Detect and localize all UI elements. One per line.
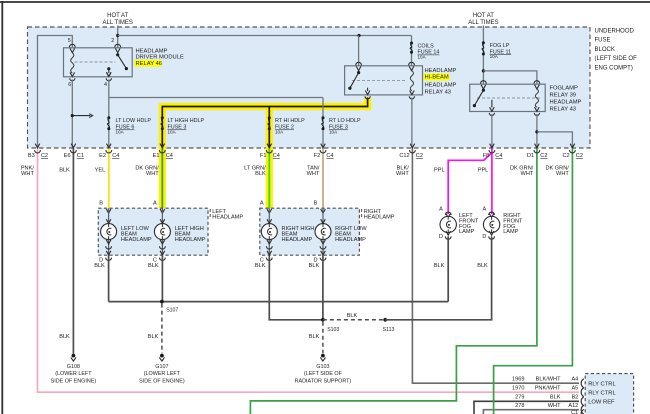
svg-text:C2: C2 [562, 153, 569, 159]
ground G108 [51, 354, 97, 385]
svg-text:LOW REF: LOW REF [588, 399, 615, 405]
right headlamp assembly (dashed box) [260, 208, 360, 255]
svg-text:HEADLAMP: HEADLAMP [175, 237, 206, 243]
wire color label at x=108.8 [95, 167, 106, 173]
relay 43 coil-bottom connector (arrow+arc) [409, 91, 414, 99]
svg-text:5: 5 [68, 38, 71, 44]
svg-text:HEADLAMP: HEADLAMP [335, 237, 366, 243]
wire relay 46 pin 4 feed to fuses (lo-beam bus) [109, 79, 323, 147]
svg-text:C4: C4 [326, 153, 333, 159]
fog relay coil-bottom connector (arrow+arc) [534, 107, 539, 115]
connector pin E6 C1 at fuse block edge [64, 144, 84, 160]
svg-text:BLK: BLK [148, 263, 159, 269]
wire BLK E6 to ground G108 [72, 148, 74, 354]
svg-text:ENG COMPT): ENG COMPT) [595, 66, 633, 72]
headlamp bulb at x=269.3 pin A/C [260, 201, 272, 224]
wire BLK dashed splice link S103-S113 [323, 319, 385, 321]
wire coils fuse 14 feed [411, 36, 413, 66]
connector pin F8 C4 at fuse block edge [483, 144, 503, 160]
headlamp bulb at x=323.0 pin B/D [314, 201, 326, 224]
svg-text:RLY CTRL: RLY CTRL [588, 390, 616, 396]
fog relay switch [473, 89, 492, 108]
headlamp bulb at x=162.4 pin A/C [153, 201, 165, 224]
wire hi-beam highlighted trunk from relay 43 output [162, 97, 367, 208]
svg-text:S113: S113 [383, 327, 395, 333]
svg-text:10A: 10A [329, 130, 338, 135]
wire fog feed to relay coil top [483, 71, 537, 84]
relay 46 pin 2 connector (arc+arrow) [115, 44, 121, 52]
svg-text:278: 278 [515, 403, 524, 409]
wire color label at x=412.4 [396, 165, 409, 177]
relay 46 internal dashed link [75, 61, 116, 63]
svg-text:D: D [439, 234, 443, 240]
BCM row C1 (clipped) [571, 409, 584, 414]
fog relay coil [535, 89, 538, 107]
relay 43 switch [348, 71, 367, 91]
wire PNK/WHT B3 to BCM RLY CTRL (row 1970) [38, 148, 580, 392]
wire PPL F8 to right front fog lamp [491, 148, 493, 214]
wire BLK ground bus S107 (left) [109, 301, 449, 303]
svg-text:PPL: PPL [434, 167, 445, 173]
connector pin F1 C4 at fuse block edge [260, 144, 280, 160]
svg-text:C4: C4 [273, 153, 280, 159]
relay 43 switch-feed connector (arc+arrow) [356, 62, 362, 70]
svg-text:FUSE: FUSE [595, 38, 611, 44]
wire BLK/WHT C12 to BCM RLY CTRL (row 1969) [412, 148, 579, 383]
svg-text:10A: 10A [275, 130, 284, 135]
svg-text:(LEFT SIDE OF: (LEFT SIDE OF [595, 56, 638, 62]
connector pin E2 C4 at fuse block edge [99, 144, 119, 160]
svg-text:HOT AT: HOT AT [473, 13, 494, 19]
svg-text:BLK: BLK [59, 334, 70, 340]
ground G107 [139, 354, 185, 385]
relay 46 coil [71, 53, 74, 74]
svg-text:10A: 10A [168, 130, 177, 135]
fuse COILS FUSE 14 10A [410, 42, 439, 60]
wire hot feed right vertical [482, 26, 484, 85]
svg-text:RT LO HDLP: RT LO HDLP [329, 118, 361, 124]
svg-text:RADIATOR SUPPORT): RADIATOR SUPPORT) [295, 378, 352, 384]
svg-text:RELAY 43: RELAY 43 [550, 107, 577, 113]
wire color label at x=269.3 [244, 165, 266, 177]
fog relay switched-output connector (arrow+arc) [489, 107, 494, 115]
fog lamp bulb at x=491.6 [483, 207, 495, 218]
wire DK GRN/WHT E1 (highlighted) to left high beam headlamp [161, 148, 163, 208]
BCM row 279 BLK B2 [515, 395, 584, 406]
svg-text:10A: 10A [490, 54, 499, 59]
svg-text:WHT: WHT [396, 171, 409, 177]
svg-text:A: A [439, 207, 443, 213]
svg-text:HI-BEAM: HI-BEAM [425, 75, 449, 81]
BCM connector dashed box [585, 374, 633, 414]
relay U-Foglamp Relay 39 / Headlamp Relay 43 box [470, 84, 546, 111]
relay U-Headlamp Hi-Beam Relay 43 box [345, 66, 423, 95]
wire bus hot-left to coils fuse 14 [118, 35, 412, 37]
svg-text:DRIVER MODULE: DRIVER MODULE [136, 55, 184, 61]
BCM row 278 WHT A12 [515, 403, 584, 414]
svg-text:D1: D1 [527, 153, 534, 159]
wire color label at x=323 [307, 165, 320, 177]
svg-text:A: A [260, 201, 264, 207]
wire color label at x=572.4 [545, 165, 569, 177]
svg-text:WHT: WHT [556, 171, 569, 177]
fog relay internal dashed link [477, 97, 540, 99]
node splice S107 [160, 300, 178, 314]
relay 46 pin 5 connector (arc+arrow) [69, 44, 75, 52]
svg-text:E6: E6 [64, 153, 71, 159]
svg-text:10A: 10A [116, 130, 125, 135]
relay 46 switch [107, 53, 129, 76]
relay 43 switched-output connector (arrow+arc) [365, 91, 370, 99]
fuse RT HI HDLP FUSE 2 10A [275, 118, 305, 135]
svg-text:S107: S107 [166, 308, 178, 314]
fog relay switch-feed connector (arc+arrow) [481, 81, 487, 89]
fog lamp label LEFT FRONT FOG LAMP [459, 213, 479, 235]
fuse symbol LT HIGH (on highlighted wire) [161, 116, 164, 119]
svg-text:F1: F1 [260, 153, 267, 159]
svg-text:FOGLAMP: FOGLAMP [550, 86, 578, 92]
relay 46 pin 4 connector (arrow+arc) [106, 72, 111, 80]
HOT AT ALL TIMES label (right) [468, 13, 498, 26]
svg-text:BLK: BLK [309, 263, 320, 269]
right headlamp box label [362, 209, 395, 221]
page border frame top [0, 1, 650, 3]
node splice S113 [383, 318, 395, 333]
svg-text:D: D [482, 234, 486, 240]
svg-text:HEADLAMP: HEADLAMP [425, 83, 457, 89]
fuse LT LOW HDLP FUSE 6 10A [107, 116, 151, 134]
fuse FOG LP FUSE 11 10A [482, 41, 511, 59]
svg-text:YEL: YEL [95, 167, 106, 173]
svg-text:RLY CTRL: RLY CTRL [588, 381, 616, 387]
svg-text:A4: A4 [571, 377, 578, 383]
page border frame left [1, 1, 3, 414]
svg-text:C12: C12 [399, 153, 409, 159]
svg-text:F8: F8 [483, 153, 490, 159]
svg-text:HEADLAMP: HEADLAMP [121, 237, 152, 243]
HOT AT ALL TIMES label (left) [103, 13, 133, 26]
svg-text:PPL: PPL [478, 167, 489, 173]
svg-text:A12: A12 [568, 403, 578, 409]
underhood fuse block label [595, 28, 638, 71]
svg-text:1970: 1970 [512, 386, 524, 392]
wire color label at x=73.4 [59, 167, 70, 173]
connector pin E1 C4 at fuse block edge [153, 144, 173, 160]
svg-text:C2: C2 [540, 153, 547, 159]
wire color label at x=162.3 [135, 165, 159, 177]
svg-text:E1: E1 [153, 153, 160, 159]
svg-text:BLK: BLK [347, 313, 358, 319]
wire DK GRN/WHT C2 (fog relay coil) routing to bottom [494, 148, 573, 414]
svg-text:RELAY 39: RELAY 39 [550, 93, 577, 99]
svg-text:C2: C2 [41, 153, 48, 159]
svg-text:B: B [99, 201, 103, 207]
svg-text:BLK: BLK [550, 395, 561, 401]
wire TAN/WHT F2 to right low beam headlamp [322, 148, 324, 208]
svg-text:WHT: WHT [521, 171, 534, 177]
wire YEL E2 to left low beam headlamp [108, 148, 110, 208]
wire BLK dashed S107 to ground G107 [161, 304, 163, 354]
relay 43 internal dashed link [352, 79, 406, 81]
wire LT GRN/BLK F1 (highlighted) to right high beam headlamp [268, 148, 270, 208]
wire BLK dashed S103 to ground G103 [322, 322, 324, 353]
svg-text:HEADLAMP: HEADLAMP [425, 68, 457, 74]
connector pin D1 C2 at fuse block edge [527, 144, 548, 160]
wire hot feed left (B+) vertical to relay 46 pin 2 [117, 26, 119, 48]
svg-text:G108: G108 [67, 364, 80, 370]
svg-text:ALL TIMES: ALL TIMES [468, 20, 498, 26]
svg-text:BLK: BLK [255, 263, 266, 269]
svg-text:WHT: WHT [21, 171, 34, 177]
node splice S103 [321, 318, 339, 333]
svg-text:WHT: WHT [146, 171, 159, 177]
relay U-Headlamp Driver Module Relay 46 box [64, 48, 133, 77]
svg-text:G103: G103 [316, 364, 329, 370]
headlamp bulb at x=108.6 pin B/D [99, 201, 111, 224]
svg-text:B2: B2 [571, 395, 578, 401]
svg-text:10A: 10A [418, 54, 427, 59]
svg-text:E2: E2 [99, 153, 106, 159]
wire color label at x=536.9 [510, 165, 534, 177]
svg-text:(LOWER LEFT: (LOWER LEFT [144, 371, 181, 377]
headlamp bulb label RIGHT HIGH BEAM HEADLAMP [282, 226, 315, 243]
svg-text:G107: G107 [155, 364, 168, 370]
headlamp bulb label LEFT LOW BEAM HEADLAMP [121, 226, 152, 243]
node junction on pin-6 wire with off-page arrow [71, 114, 93, 118]
svg-text:BLOCK: BLOCK [595, 47, 615, 53]
wire WHT 278 (row 278) [483, 410, 579, 414]
connector pin F2 C4 at fuse block edge [314, 144, 334, 160]
wire BLK left fog lamp ground drop [447, 236, 449, 301]
wire fog relay output to F8 connector [491, 114, 493, 148]
svg-text:(LOWER LEFT: (LOWER LEFT [55, 371, 92, 377]
wire DK GRN/WHT D1 (fog relay coil) routing to bottom [250, 148, 537, 414]
left headlamp assembly (dashed box) [98, 208, 208, 255]
fuse LT HIGH HDLP FUSE 3 10A [168, 118, 205, 135]
svg-text:A: A [483, 207, 487, 213]
BCM row 1969 BLK/WHT A4 [512, 377, 584, 388]
node junction hot-left / bus [116, 34, 119, 37]
connector pin C12 C2 at fuse block edge [399, 144, 423, 160]
svg-text:HEADLAMP: HEADLAMP [550, 100, 582, 106]
wire bus segment B3 to relay 46 pin 5 [38, 36, 73, 149]
left headlamp box label [210, 209, 243, 221]
relay 43 coil-top connector (arc+arrow) [409, 62, 415, 70]
svg-text:RT HI HDLP: RT HI HDLP [275, 118, 305, 124]
svg-text:B: B [314, 201, 318, 207]
relay 46 pin 6 connector (arrow+arc) [70, 72, 75, 80]
wire color label at x=491.9 [478, 167, 489, 173]
svg-text:6: 6 [68, 82, 71, 88]
svg-text:WHT: WHT [548, 403, 561, 409]
connector pin C2 C2 at fuse block edge [562, 144, 583, 160]
svg-text:C4: C4 [166, 153, 173, 159]
svg-text:BLK: BLK [477, 263, 488, 269]
wire BLK left low beam ground drop [108, 255, 110, 301]
svg-text:LAMP: LAMP [503, 229, 519, 235]
svg-text:F2: F2 [314, 153, 321, 159]
wire fog relay coil to D1/C2 connectors [535, 114, 572, 148]
connector pin B3 C2 at fuse block edge [28, 144, 48, 160]
svg-text:BLK/WHT: BLK/WHT [536, 377, 561, 383]
svg-text:HEADLAMP: HEADLAMP [282, 237, 313, 243]
svg-text:C2: C2 [416, 153, 423, 159]
svg-text:C4: C4 [112, 153, 119, 159]
svg-text:S103: S103 [327, 327, 339, 333]
fuse RT LO HDLP FUSE 3 10A [322, 116, 361, 134]
wire BLK right high beam ground drop [269, 255, 323, 320]
svg-text:UNDERHOOD: UNDERHOOD [595, 28, 635, 34]
svg-text:BLK: BLK [148, 334, 159, 340]
svg-text:C1: C1 [571, 410, 578, 414]
svg-text:HOT AT: HOT AT [107, 13, 128, 19]
svg-text:BLK: BLK [94, 263, 105, 269]
relay 46 name label HEADLAMP DRIVER MODULE RELAY 46 [135, 49, 184, 67]
svg-text:SIDE OF ENGINE): SIDE OF ENGINE) [51, 378, 97, 384]
fuse symbol RT HI (on highlighted wire) [268, 116, 271, 119]
relay 43 name label HEADLAMP HI-BEAM HEADLAMP RELAY 43 [424, 68, 457, 95]
node junction bus / relay 43 switch feed [357, 34, 360, 37]
wire BLK 279 to LOW REF (row 279) [474, 401, 579, 414]
wire PPL branch to left front fog lamp [448, 153, 492, 215]
underhood fuse block (dashed box) [28, 27, 591, 148]
relay 43 coil [410, 71, 413, 91]
svg-text:C4: C4 [495, 153, 502, 159]
svg-text:FOG LP: FOG LP [490, 43, 510, 49]
svg-text:4: 4 [104, 82, 107, 88]
svg-text:1969: 1969 [512, 377, 524, 383]
node junction fog feed split [482, 69, 485, 72]
svg-text:BLK: BLK [59, 167, 70, 173]
wire relay 46 pin 6 to E6 connector [71, 79, 73, 147]
wire color label at x=37.5 [21, 165, 35, 177]
svg-text:A: A [153, 201, 157, 207]
wire color label at x=448.2 [434, 167, 445, 173]
svg-text:SIDE OF ENGINE): SIDE OF ENGINE) [139, 378, 185, 384]
svg-text:HEADLAMP: HEADLAMP [212, 214, 243, 220]
wire BLK right low beam ground drop [322, 255, 324, 320]
svg-text:BLK: BLK [309, 334, 320, 340]
fog lamp label RIGHT FRONT FOG LAMP [503, 213, 523, 235]
wire relay 43 switch feed from bus [358, 36, 360, 66]
fog lamp bulb at x=448.2 [439, 207, 451, 218]
fog relay coil-top connector (arc+arrow) [534, 81, 540, 89]
relay 46 pin number labels [68, 38, 114, 88]
svg-text:COILS: COILS [418, 43, 435, 49]
svg-text:C2: C2 [576, 153, 583, 159]
BCM row 1970 PNK/WHT A5 [512, 386, 584, 397]
svg-text:WHT: WHT [307, 171, 320, 177]
svg-text:LT HIGH HDLP: LT HIGH HDLP [168, 118, 205, 124]
svg-text:279: 279 [515, 395, 524, 401]
svg-text:LT LOW HDLP: LT LOW HDLP [116, 118, 152, 124]
headlamp bulb label LEFT HIGH BEAM HEADLAMP [175, 226, 206, 243]
svg-text:2: 2 [111, 38, 114, 44]
wire BLK left high beam ground drop [161, 255, 163, 301]
ground G103 [295, 354, 352, 385]
fog relay name label FOGLAMP RELAY 39 HEADLAMP RELAY 43 [550, 86, 582, 113]
svg-text:C1: C1 [77, 153, 84, 159]
svg-text:(LEFT SIDE OF: (LEFT SIDE OF [304, 371, 343, 377]
svg-text:RELAY 46: RELAY 46 [136, 61, 163, 67]
svg-text:HEADLAMP: HEADLAMP [364, 214, 395, 220]
svg-text:A5: A5 [571, 386, 578, 392]
headlamp bulb label RIGHT LOW BEAM HEADLAMP [335, 226, 367, 243]
svg-text:BLK: BLK [255, 171, 266, 177]
wire relay 43 coil to C12 connector [411, 97, 413, 147]
svg-text:PNK/WHT: PNK/WHT [535, 386, 561, 392]
svg-text:LAMP: LAMP [459, 229, 475, 235]
wire BLK S113 to right fog lamp ground [385, 236, 491, 319]
svg-text:BLK: BLK [434, 263, 445, 269]
svg-text:B3: B3 [28, 153, 35, 159]
svg-text:ALL TIMES: ALL TIMES [103, 20, 133, 26]
svg-text:RELAY 43: RELAY 43 [425, 89, 452, 95]
